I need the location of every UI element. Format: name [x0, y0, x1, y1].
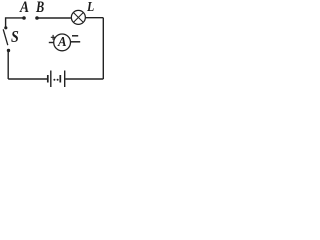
battery middle dot 2 [57, 79, 59, 81]
label A [20, 0, 29, 16]
wire battery to bottom-left corner [8, 78, 47, 80]
battery middle dot 1 [53, 79, 55, 81]
battery right positive plate [64, 71, 66, 88]
label B [36, 0, 44, 16]
battery left positive plate [50, 71, 52, 88]
wire right side [102, 18, 104, 79]
switch S blade [3, 29, 8, 45]
ammeter minus polarity [72, 35, 78, 37]
lamp L [71, 10, 85, 24]
wire node B to lamp [37, 17, 71, 19]
ammeter left stub [49, 42, 54, 44]
wire left side up to switch [7, 52, 9, 80]
wire lamp to top-right corner [85, 17, 103, 19]
switch bottom terminal dot [7, 49, 10, 52]
wire bottom right to battery [65, 78, 103, 80]
ammeter plus polarity [51, 35, 55, 40]
battery right negative plate [59, 75, 61, 83]
switch top terminal dot [4, 26, 7, 29]
ammeter circle U1 [54, 34, 71, 51]
wire top-left horizontal to node A [6, 18, 24, 28]
ammeter letter A [58, 36, 67, 50]
ammeter right stub [70, 41, 80, 43]
node B terminal dot [35, 16, 39, 20]
node A terminal dot [22, 16, 26, 20]
label L [87, 1, 94, 15]
label S [11, 29, 19, 46]
battery left negative plate [47, 75, 49, 83]
